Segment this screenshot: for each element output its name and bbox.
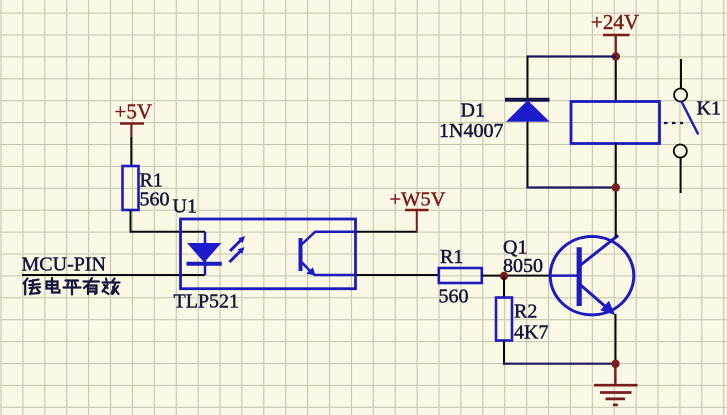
char 有 <box>84 278 100 294</box>
power port +5V <box>115 100 153 139</box>
svg-text:R2: R2 <box>514 301 537 323</box>
wire R1 to U1 LED anode <box>131 210 206 232</box>
switch K1 top contact <box>674 89 687 102</box>
diode D1 <box>505 100 550 122</box>
switch K1 top wire <box>680 59 682 89</box>
switch K1 linkage dashes <box>664 122 683 124</box>
U1 light arrow 2 <box>230 247 245 262</box>
switch K1 blade <box>682 102 699 135</box>
svg-text:560: 560 <box>140 189 170 211</box>
svg-text:R1: R1 <box>440 246 463 268</box>
power port +W5V <box>390 189 446 233</box>
ground <box>594 364 638 405</box>
wire +5V to R1 <box>130 137 132 167</box>
wire junction to D1 cathode <box>528 55 616 57</box>
wire Q1 emitter to ground <box>615 314 617 364</box>
char 电 <box>47 278 60 293</box>
switch K1 bottom contact <box>674 145 687 158</box>
svg-text:MCU-PIN: MCU-PIN <box>22 254 106 276</box>
svg-text:K1: K1 <box>697 98 721 120</box>
resistor R2 <box>496 298 512 341</box>
node junction R1/R2 <box>500 272 508 280</box>
wire relay to Q1 collector <box>615 143 617 238</box>
wire U1 emitter to R1 <box>356 274 439 276</box>
svg-text:+5V: +5V <box>115 100 153 124</box>
svg-text:D1: D1 <box>461 100 485 122</box>
char 平 <box>64 281 81 295</box>
U1 phototransistor <box>300 232 357 276</box>
svg-text:+24V: +24V <box>591 10 639 34</box>
wire junction to R2 <box>503 276 505 298</box>
node junction below relay <box>612 183 620 191</box>
transistor Q1 <box>550 235 634 315</box>
svg-text:8050: 8050 <box>503 255 543 277</box>
switch K1 bottom wire <box>680 158 682 194</box>
wire U1 collector to +W5V <box>356 231 417 233</box>
wire MCU-PIN to U1 LED cathode <box>22 274 205 276</box>
char 效 <box>103 279 120 295</box>
U1 LED <box>187 232 222 275</box>
resistor R1 (left) <box>123 166 139 210</box>
svg-text:4K7: 4K7 <box>514 322 548 344</box>
U1 light arrow 1 <box>230 236 245 251</box>
svg-text:1N4007: 1N4007 <box>439 120 503 142</box>
op-to-coupler U1 body <box>181 219 356 289</box>
relay coil <box>571 102 660 144</box>
wire R2 to ground node <box>503 341 505 365</box>
wire +24V to relay <box>615 57 617 103</box>
wire R1 to Q1 base <box>482 275 552 277</box>
char 低 <box>24 279 41 295</box>
svg-text:U1: U1 <box>173 196 197 218</box>
text 低电平有效 <box>24 278 120 295</box>
wire D1 anode to junction <box>527 122 529 189</box>
node junction at ground <box>611 360 619 368</box>
svg-text:TLP521: TLP521 <box>174 291 240 313</box>
svg-text:560: 560 <box>439 286 469 308</box>
svg-text:+W5V: +W5V <box>390 189 446 211</box>
node junction at +24V <box>612 52 620 60</box>
power port +24V <box>591 10 639 57</box>
resistor R1 (right, horizontal) <box>439 268 482 283</box>
